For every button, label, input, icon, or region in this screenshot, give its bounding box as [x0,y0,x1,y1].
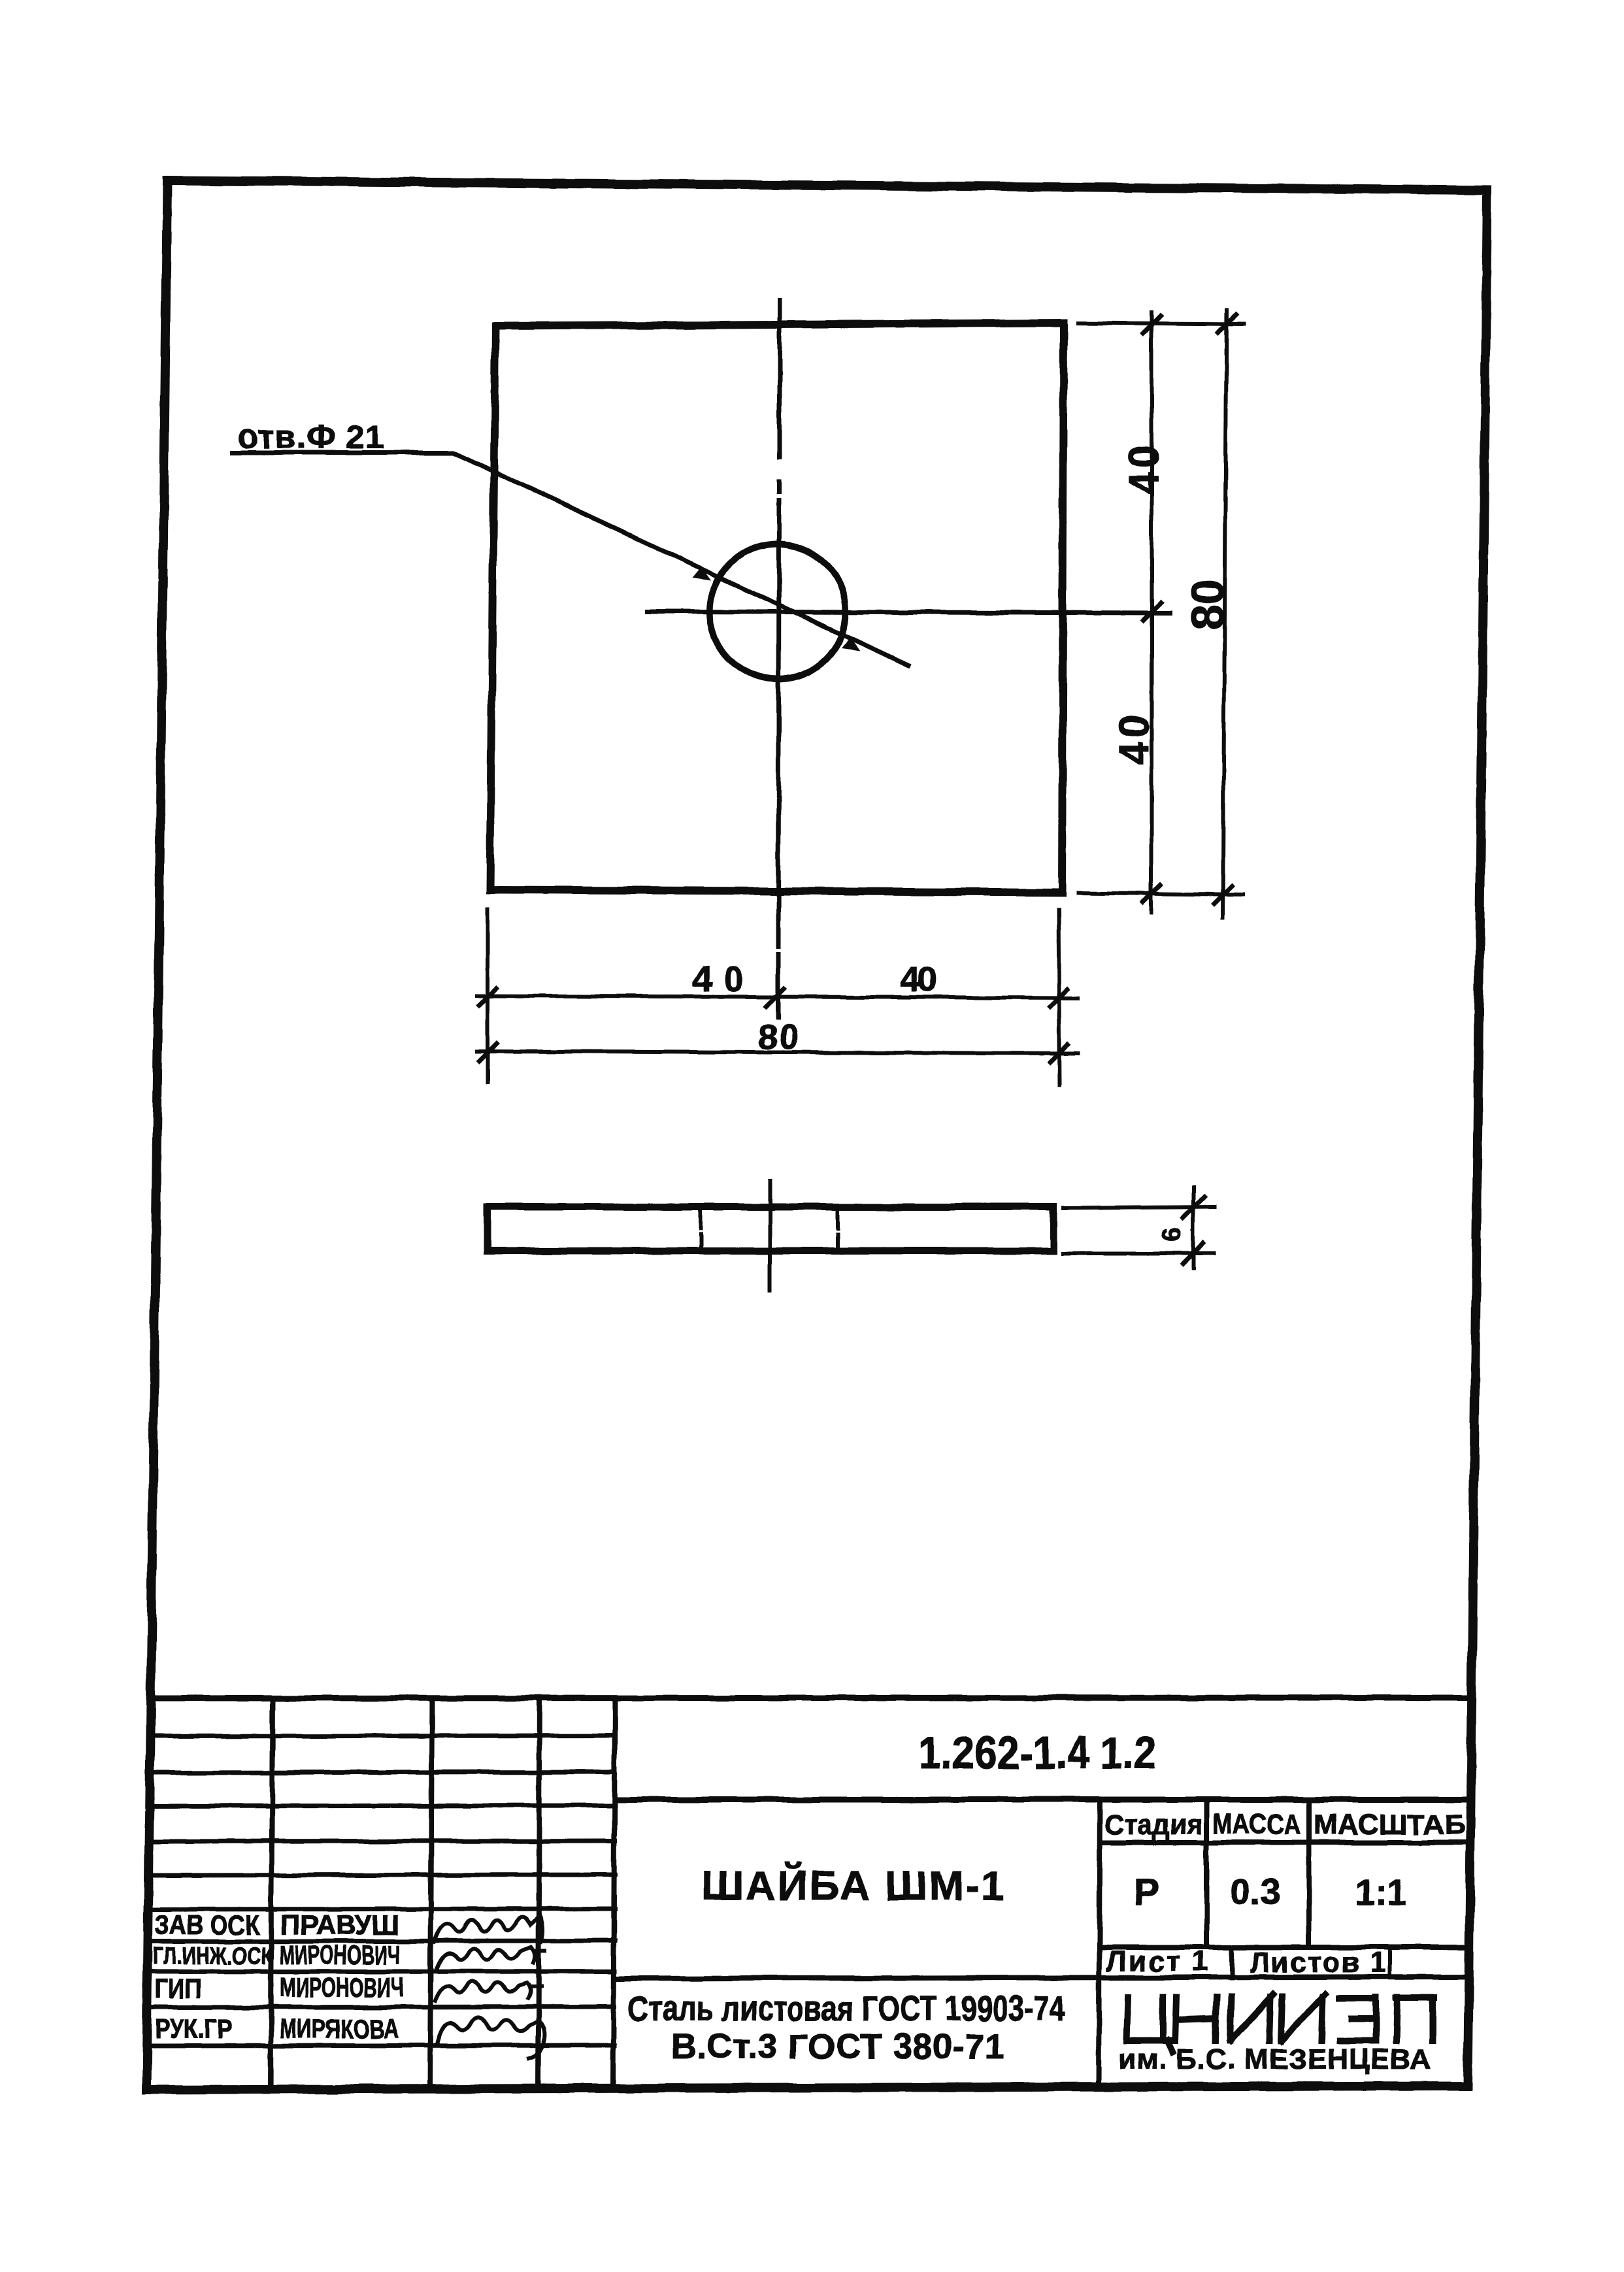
svg-text:Р: Р [1134,1871,1159,1913]
signature 1 [434,1915,543,1942]
thickness extension bottom [1063,1251,1214,1255]
letter Ц [1127,1997,1172,2052]
thickness extension top [1063,1207,1214,1208]
extension line bottom left [486,910,489,1083]
side view rectangle [487,1207,1053,1251]
svg-text:ШАЙБА ШМ-1: ШАЙБА ШМ-1 [702,1862,1004,1909]
letter П [1396,1997,1434,2041]
svg-text:МАСШТАБ: МАСШТАБ [1314,1809,1465,1841]
svg-text:6: 6 [1157,1227,1186,1242]
svg-text:Сталь листовая ГОСТ 19903-74: Сталь листовая ГОСТ 19903-74 [628,1989,1065,2028]
svg-text:МИРЯКОВА: МИРЯКОВА [280,2013,399,2044]
side view centerline [768,1181,772,1290]
leader arrowhead upper [692,567,711,580]
svg-text:ПРАВУШ: ПРАВУШ [280,1909,399,1940]
vertical x2127 list sep2 [1388,1947,1392,1977]
svg-text:80: 80 [1182,579,1233,630]
svg-text:Лист 1: Лист 1 [1106,1945,1208,1977]
title block line below doc number [615,1797,1469,1803]
tick marks vertical dims [1143,315,1236,904]
vertical x1884 list sep [1229,1947,1234,1978]
dimension line 40/40 vertical [1150,312,1153,912]
plate square outline [490,323,1064,893]
header bottom line [1100,1840,1469,1845]
svg-text:В.Ст.3 ГОСТ 380-71: В.Ст.3 ГОСТ 380-71 [671,2027,1004,2066]
extension line bottom right of square [1059,910,1060,1085]
svg-text:ЗАВ ОСК: ЗАВ ОСК [155,1909,259,1940]
svg-text:0.3: 0.3 [1230,1871,1281,1912]
vertical x941 [613,1698,615,2088]
hidden hole edge right [836,1211,840,1245]
dimension line 40|40 bottom [477,996,1078,998]
ЦНИИЭП logo stick letters [1127,1994,1434,2052]
svg-text:1.262-1.4 1.2: 1.262-1.4 1.2 [918,1727,1157,1778]
title block top line [150,1698,1470,1698]
signature 3 [435,1982,541,2001]
extension line bottom right [1078,893,1244,895]
signature table rows [150,1736,615,2046]
svg-text:МИРОНОВИЧ: МИРОНОВИЧ [280,1939,400,1970]
svg-text:ГИП: ГИП [155,1973,201,2004]
svg-text:им. Б.С. МЕЗЕНЦЕВА: им. Б.С. МЕЗЕНЦЕВА [1118,2043,1431,2075]
svg-text:40: 40 [901,960,937,999]
signature 4 [437,2017,544,2058]
extension line top right [1078,323,1244,324]
svg-text:МИРОНОВИЧ: МИРОНОВИЧ [280,1972,404,2003]
leader arrowhead lower [841,637,860,651]
dimension line 80 vertical [1223,310,1227,918]
svg-text:ГЛ.ИНЖ.ОСК: ГЛ.ИНЖ.ОСК [153,1943,273,1970]
svg-text:Стадия: Стадия [1104,1809,1202,1841]
svg-text:МАССА: МАССА [1212,1808,1301,1840]
ticks bottom dims [479,988,1068,1062]
dimension line 80 bottom [477,1051,1078,1053]
hole circle [710,544,846,680]
horizontal centerline plan view [648,612,1170,613]
letter Э [1340,1997,1376,2041]
vertical x2003 [1306,1800,1312,1947]
vertical x1846 [1204,1800,1209,1947]
signature table verticals [271,1698,540,2090]
ticks thickness [1183,1197,1204,1264]
list row bottom line [615,1977,1468,1979]
svg-text:80: 80 [758,1017,799,1057]
vertical centerline plan view [778,300,780,1017]
thickness dim line [1191,1187,1195,1268]
leader line отв [232,453,908,665]
letter Н [1175,1997,1217,2041]
hidden hole edge left [699,1211,703,1245]
border frame [146,180,1487,2090]
values bottom line [1100,1945,1469,1950]
svg-text:1:1: 1:1 [1354,1871,1407,1913]
signature 2 [437,1947,545,1968]
vertical x1683 [1099,1800,1100,2086]
svg-text:отв.Ф 21: отв.Ф 21 [237,418,384,456]
letter И 2 [1281,1994,1325,2041]
svg-text:РУК.ГР: РУК.ГР [155,2013,232,2044]
letter И [1230,1994,1273,2041]
